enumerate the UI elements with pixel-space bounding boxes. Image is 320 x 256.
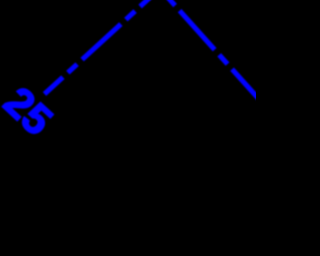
wire left dashed segment	[45, 0, 160, 94]
wire right dashed segment	[160, 0, 276, 118]
